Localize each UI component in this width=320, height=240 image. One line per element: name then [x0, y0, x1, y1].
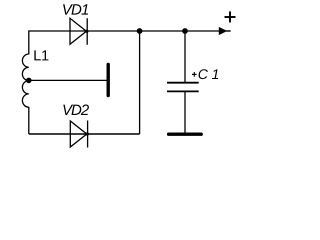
node: inductor center tap junction dot: [26, 78, 32, 84]
node: junction dot top rail / capacitor branch: [182, 28, 188, 34]
polarity plus for C1: [192, 72, 197, 77]
wire: left rail upper segment: [28, 30, 30, 54]
capacitor C1 plates: [167, 83, 199, 92]
label VD2: [63, 105, 89, 115]
electrode bar (thick vertical terminal): [106, 65, 109, 96]
diode VD2: [70, 121, 89, 148]
wire: top rail from left corner to arrowhead: [29, 30, 219, 32]
wire: bottom rail: [29, 133, 140, 135]
inductor L1: [22, 54, 28, 107]
wire: left rail lower segment: [28, 107, 30, 134]
plus label at output: [225, 11, 236, 22]
node: junction dot top rail / middle branch: [137, 28, 143, 34]
wire: capacitor bottom stub: [184, 91, 186, 132]
ground bar: [169, 132, 202, 135]
label VD1: [63, 4, 88, 14]
output terminal arrow: [219, 27, 231, 35]
wire: middle vertical branch: [139, 31, 141, 134]
label L1: [34, 50, 48, 60]
diode VD1: [70, 18, 89, 45]
label C1: [199, 69, 219, 79]
wire: center tap to electrode bar: [29, 79, 107, 81]
wire: capacitor top stub: [184, 31, 186, 82]
